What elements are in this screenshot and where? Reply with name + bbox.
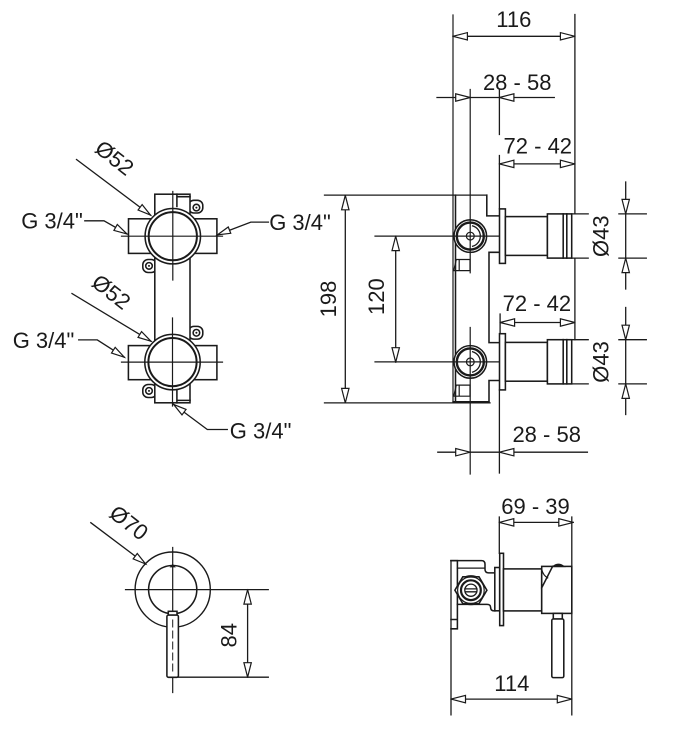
lower port crosshair bbox=[375, 328, 500, 475]
svg-text:G 3/4": G 3/4" bbox=[230, 418, 292, 443]
ear top-right of upper port bbox=[189, 200, 203, 213]
bottom tab step detail bbox=[177, 391, 190, 403]
upper port circle bbox=[145, 209, 200, 264]
crosshair bbox=[126, 548, 269, 693]
svg-text:84: 84 bbox=[217, 623, 242, 647]
ear bottom-left of upper port bbox=[143, 260, 157, 273]
svg-text:Ø43: Ø43 bbox=[588, 215, 613, 257]
lever neck (side) bbox=[553, 613, 562, 619]
lever dashed centerline bbox=[172, 620, 174, 674]
svg-text:120: 120 bbox=[364, 278, 389, 315]
svg-text:Ø52: Ø52 bbox=[90, 135, 138, 180]
dim 120 bbox=[364, 236, 399, 362]
label G 3/4 bottom bbox=[172, 402, 292, 444]
escutcheon plate (side) bbox=[500, 553, 504, 625]
114 left extension / back plate edge bbox=[450, 561, 452, 715]
lower port housing rect bbox=[128, 346, 217, 380]
label D70 bbox=[91, 500, 153, 567]
upper port crosshair bbox=[375, 90, 500, 273]
svg-text:114: 114 bbox=[494, 671, 529, 696]
collar bbox=[495, 568, 500, 611]
upper wall plate bbox=[500, 209, 506, 264]
dim 69-39 bbox=[499, 494, 573, 715]
upper port crosshair bbox=[122, 192, 223, 281]
dim 116 bbox=[453, 7, 575, 214]
bracket detail upper port bbox=[454, 260, 470, 271]
lower tube bbox=[505, 342, 547, 381]
label D52 lower bbox=[72, 269, 153, 344]
step above upper port bbox=[487, 195, 500, 216]
escutcheon circle bbox=[135, 552, 210, 627]
svg-text:28 - 58: 28 - 58 bbox=[483, 70, 552, 95]
lower cap bbox=[547, 340, 571, 384]
svg-text:198: 198 bbox=[316, 281, 341, 318]
step below lower port bbox=[489, 381, 500, 402]
ear top-right of lower port bbox=[189, 326, 203, 339]
svg-text:72 - 42: 72 - 42 bbox=[504, 134, 573, 159]
dim 28-58 bottom bbox=[438, 390, 588, 473]
body bottom edge + 198 extension bbox=[325, 402, 491, 403]
upper port cap circles bbox=[454, 220, 487, 253]
svg-text:G 3/4": G 3/4" bbox=[13, 328, 75, 353]
upper port housing rect bbox=[129, 219, 217, 254]
handle hub circle bbox=[149, 566, 197, 614]
dim 72-42 top bbox=[499, 134, 575, 168]
svg-text:72 - 42: 72 - 42 bbox=[503, 291, 572, 316]
dim 28-58 top bbox=[437, 70, 554, 209]
lower port circle bbox=[145, 334, 200, 389]
label G 3/4 upper-left bbox=[21, 209, 128, 237]
svg-text:Ø43: Ø43 bbox=[588, 341, 613, 383]
back plate bbox=[451, 561, 457, 629]
ear bottom-left of lower port bbox=[143, 385, 157, 398]
sleeve bbox=[504, 569, 542, 611]
lower port crosshair bbox=[122, 318, 223, 406]
upper tube bbox=[505, 217, 547, 256]
svg-text:116: 116 bbox=[496, 7, 531, 32]
dim 84 bbox=[178, 590, 268, 678]
svg-text:G 3/4": G 3/4" bbox=[269, 210, 331, 235]
indicator mark bbox=[170, 564, 176, 568]
front face between ports bbox=[489, 252, 500, 342]
svg-text:G 3/4": G 3/4" bbox=[21, 209, 83, 234]
lever bbox=[167, 615, 179, 677]
body top edge + 198 extension bbox=[325, 194, 487, 196]
lever neck bbox=[168, 611, 177, 615]
upper cap bbox=[547, 214, 571, 258]
lower wall plate bbox=[500, 334, 506, 390]
top tab step detail bbox=[177, 194, 190, 206]
dim D43 bottom bbox=[572, 308, 647, 415]
dim 198 bbox=[316, 195, 349, 403]
hex nut bbox=[455, 576, 487, 604]
label D52 upper bbox=[77, 135, 153, 218]
lever (side) bbox=[552, 619, 564, 678]
dim D43 top bbox=[572, 182, 647, 289]
dim 72-42 bottom bbox=[500, 258, 575, 340]
label G 3/4 lower-left bbox=[13, 328, 126, 360]
body block bbox=[451, 561, 495, 611]
lower port cap circles bbox=[454, 346, 487, 379]
handle hub bbox=[542, 564, 572, 613]
bracket detail lower port bbox=[454, 385, 470, 396]
svg-text:28 - 58: 28 - 58 bbox=[512, 422, 581, 447]
label G 3/4 upper-right bbox=[216, 210, 331, 238]
svg-text:69 - 39: 69 - 39 bbox=[501, 494, 570, 519]
body back face bbox=[452, 15, 454, 402]
dim 114 bbox=[451, 671, 572, 703]
valve body column bbox=[155, 194, 190, 403]
